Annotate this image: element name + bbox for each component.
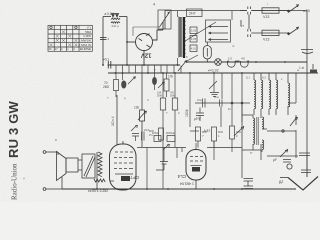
svg-text:≠0,1: ≠0,1 bbox=[103, 58, 109, 62]
svg-text:4'0: 4'0 bbox=[170, 91, 174, 95]
svg-text:CL4: CL4 bbox=[177, 174, 186, 179]
svg-text:4'0: 4'0 bbox=[241, 57, 245, 61]
svg-text:0,2: 0,2 bbox=[262, 76, 266, 80]
svg-text:0,05: 0,05 bbox=[191, 37, 197, 41]
svg-text:C/a: C/a bbox=[214, 95, 219, 99]
svg-text:+: + bbox=[23, 177, 25, 181]
svg-text:4,01: 4,01 bbox=[191, 47, 197, 51]
svg-text:2 MS1 W: 2 MS1 W bbox=[79, 43, 92, 47]
svg-text:0,1: 0,1 bbox=[246, 76, 250, 80]
svg-text:0,02: 0,02 bbox=[191, 29, 197, 33]
svg-text:Tr: Tr bbox=[250, 151, 253, 155]
svg-text:17k: 17k bbox=[168, 75, 174, 79]
svg-text:C/a: C/a bbox=[197, 98, 202, 102]
svg-text:12k: 12k bbox=[134, 106, 140, 110]
svg-text:V13: V13 bbox=[263, 38, 269, 42]
svg-text:12V: 12V bbox=[141, 52, 152, 58]
svg-text:V13: V13 bbox=[263, 15, 269, 19]
svg-text:AUMSE: AUMSE bbox=[80, 47, 91, 51]
svg-text:a-20: a-20 bbox=[303, 9, 310, 13]
svg-text:DW1: DW1 bbox=[152, 131, 159, 135]
svg-text:Radio-Union: Radio-Union bbox=[11, 163, 19, 200]
svg-text:2C1: 2C1 bbox=[144, 128, 150, 132]
svg-text:≠≠Л0 ≠ 2.252: ≠≠Л0 ≠ 2.252 bbox=[88, 189, 108, 193]
svg-text:x: x bbox=[55, 138, 57, 142]
svg-text:RU 3 GW: RU 3 GW bbox=[6, 100, 21, 158]
svg-text:2nF μ: 2nF μ bbox=[112, 24, 120, 28]
svg-text:A 87: A 87 bbox=[204, 129, 211, 133]
svg-text:2H7: 2H7 bbox=[189, 12, 196, 16]
svg-text:1504: 1504 bbox=[185, 109, 189, 117]
svg-text:1n: 1n bbox=[228, 107, 232, 111]
svg-text:μF: μF bbox=[273, 158, 277, 162]
svg-text:↓: ↓ bbox=[267, 2, 269, 6]
svg-text:ДZ: ДZ bbox=[279, 180, 283, 184]
svg-text:a 0,1V: a 0,1V bbox=[105, 12, 115, 16]
svg-text:1Cn 4: 1Cn 4 bbox=[111, 116, 115, 126]
svg-text:1'0: 1'0 bbox=[228, 57, 232, 61]
svg-text:4/7: 4/7 bbox=[240, 24, 245, 28]
svg-text:DW1E: DW1E bbox=[166, 131, 175, 135]
svg-text:1 463.04: 1 463.04 bbox=[180, 182, 194, 186]
svg-text:≠+0,1/2: ≠+0,1/2 bbox=[208, 69, 219, 73]
svg-text:1M: 1M bbox=[157, 91, 162, 95]
svg-text:1 st: 1 st bbox=[299, 66, 304, 70]
svg-text:2M2: 2M2 bbox=[103, 85, 109, 89]
svg-text:CF7: CF7 bbox=[130, 175, 139, 180]
svg-text:μF/V: μF/V bbox=[194, 117, 202, 121]
